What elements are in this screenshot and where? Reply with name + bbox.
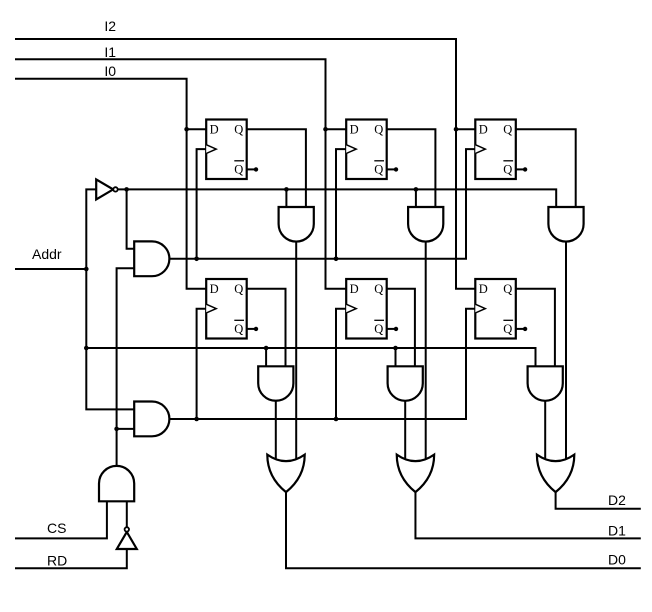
and gate A2 (lower write enable, Addr & WE)	[134, 402, 169, 437]
and gate A1 (upper write enable, nAddr & WE)	[134, 241, 169, 276]
wire bottom read AND 3 output to OR input	[544, 401, 546, 462]
wire inverter N2 output to AND input	[126, 501, 128, 527]
svg-text:D: D	[350, 123, 359, 137]
svg-text:CS: CS	[47, 520, 66, 536]
wire top read AND 3 output to OR input	[565, 242, 567, 462]
svg-text:D: D	[350, 282, 359, 296]
wire net D2 output from OR3	[556, 492, 641, 509]
and gate bottom read mux column 3	[528, 366, 563, 401]
svg-text:Q: Q	[374, 322, 383, 336]
and gate A3 (CS & not RD)	[99, 466, 134, 501]
svg-text:Q: Q	[234, 282, 243, 296]
svg-text:D0: D0	[608, 551, 626, 567]
wire net CS input	[15, 501, 107, 538]
wire top read AND 2 output to OR input	[425, 242, 427, 462]
flip-flop U1	[206, 120, 258, 180]
and gate top read mux column 2	[408, 207, 443, 242]
svg-text:I0: I0	[104, 63, 116, 79]
svg-text:I1: I1	[104, 44, 116, 60]
svg-text:RD: RD	[47, 552, 67, 568]
wire net D1 output from OR2	[415, 492, 640, 538]
flip-flop U2	[346, 120, 398, 180]
wire net WR1: lower write AND output to bottom-row FF clocks	[169, 309, 475, 422]
wire net I0: input line, drop to FF1 D and FF4 D	[15, 79, 206, 289]
svg-text:D: D	[210, 123, 219, 137]
svg-text:D2: D2	[608, 492, 626, 508]
svg-text:Q: Q	[234, 123, 243, 137]
svg-text:D: D	[479, 123, 488, 137]
and gate bottom read mux column 1	[258, 366, 293, 400]
wire net WE: write-enable vertical from CS/RD AND up to both write ANDs	[114, 268, 134, 466]
or gate output column 2	[397, 455, 434, 493]
wire FF4-bottom Q output to read AND	[247, 289, 286, 367]
flip-flop U5	[346, 279, 398, 339]
wire net nAddr: inverter output line across top read ANDs	[118, 187, 556, 249]
svg-text:D1: D1	[608, 522, 626, 538]
wire top read AND 1 output to OR input	[295, 242, 297, 462]
wire net RD input to inverter	[15, 549, 127, 568]
wire FF1-top Q output to read AND	[247, 129, 306, 207]
svg-text:Addr: Addr	[32, 246, 62, 262]
wire net I2: input line, drop to FF3 D and FF6 D	[15, 39, 475, 289]
svg-text:Q: Q	[374, 162, 383, 176]
and gate top read mux column 1	[279, 207, 314, 242]
svg-text:D: D	[479, 282, 488, 296]
wire FF6-bottom Q output to read AND	[516, 289, 555, 367]
wire net WR0: upper write AND output to top-row FF clocks	[169, 149, 475, 261]
wire FF2-top Q output to read AND	[387, 129, 436, 207]
svg-text:Q: Q	[503, 162, 512, 176]
svg-text:Q: Q	[374, 123, 383, 137]
flip-flop U4	[206, 279, 258, 339]
svg-text:Q: Q	[503, 322, 512, 336]
and gate top read mux column 3	[548, 207, 583, 242]
inverter N2 (RD)	[117, 527, 137, 549]
flip-flop U6	[475, 279, 527, 339]
or gate output column 1	[267, 455, 304, 493]
wire net D0 output from OR1	[286, 492, 641, 568]
and gate bottom read mux column 2	[388, 366, 423, 401]
svg-text:D: D	[210, 282, 219, 296]
svg-text:I2: I2	[104, 18, 116, 34]
wire net Addr: input line, vertical bus, taps to inverter, AND A2, Addr read line	[15, 189, 536, 409]
svg-text:Q: Q	[503, 282, 512, 296]
wire FF3-top Q output to read AND	[516, 129, 576, 207]
wire FF5-bottom Q output to read AND	[387, 289, 415, 367]
inverter N1 (Addr)	[96, 179, 118, 199]
svg-text:Q: Q	[234, 322, 243, 336]
wire bottom read AND 1 output to OR input	[275, 401, 277, 462]
wire net I1: input line, drop to FF2 D and FF5 D	[15, 59, 346, 289]
svg-text:Q: Q	[234, 162, 243, 176]
flip-flop U3	[475, 120, 527, 180]
wire bottom read AND 2 output to OR input	[404, 401, 406, 462]
svg-text:Q: Q	[374, 282, 383, 296]
or gate output column 3	[537, 455, 574, 493]
svg-text:Q: Q	[503, 123, 512, 137]
